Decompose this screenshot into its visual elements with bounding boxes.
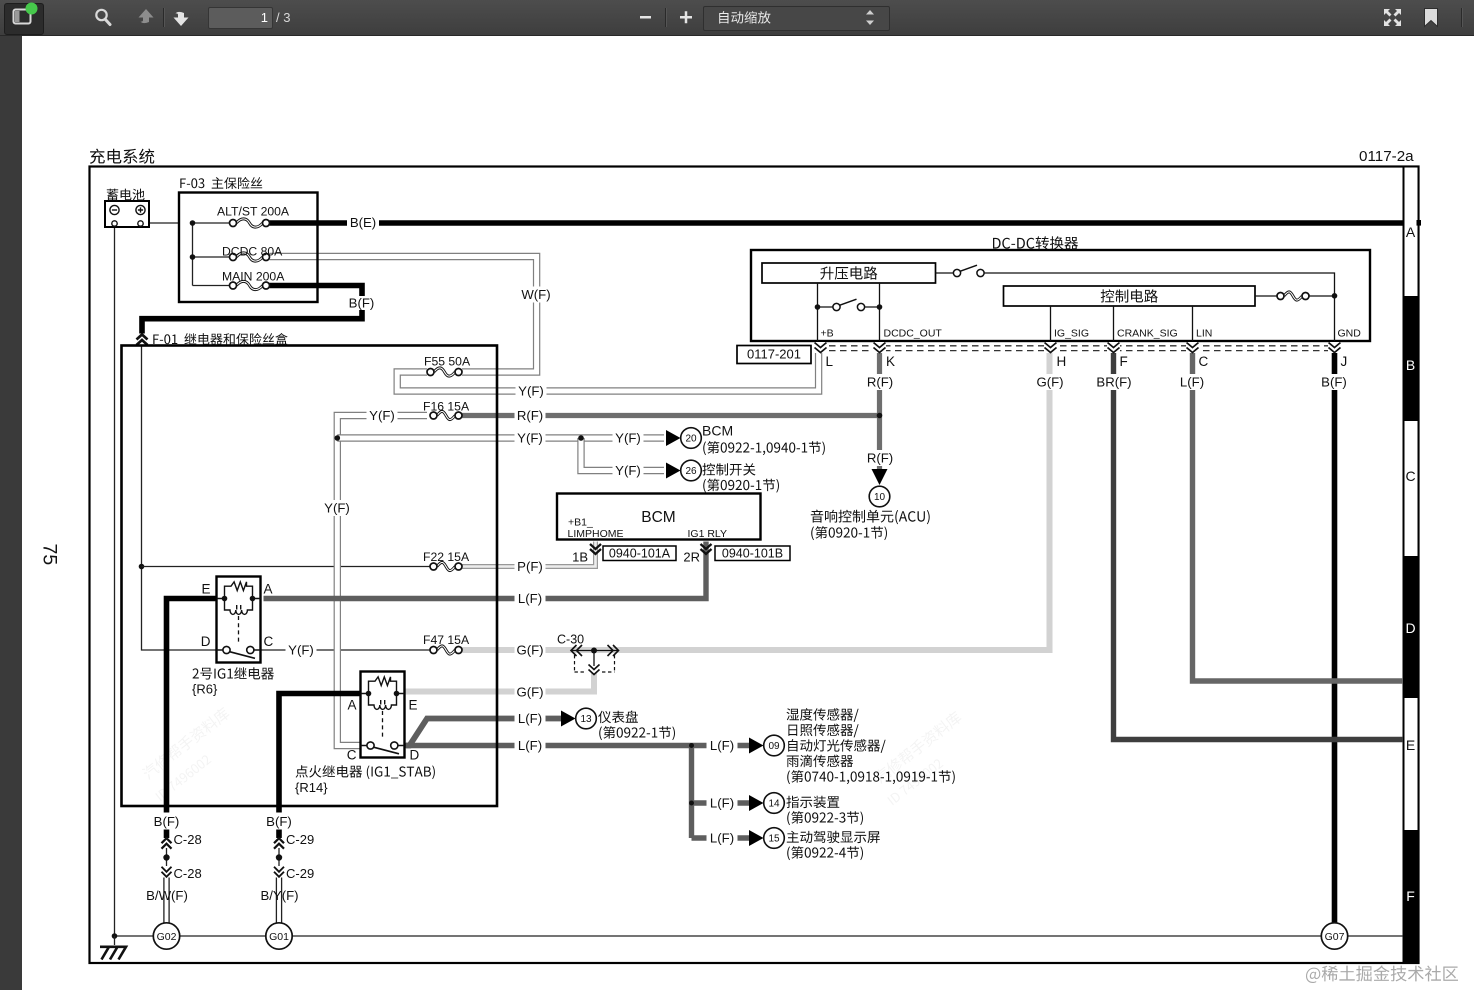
net label B(F) (346, 296, 378, 310)
fuse F22 15A (437, 562, 455, 570)
svg-text:B(E): B(E) (350, 215, 376, 230)
node: R(F) junction (877, 413, 883, 419)
svg-text:B(F): B(F) (1321, 375, 1347, 390)
svg-text:A: A (264, 582, 273, 597)
page outer border (90, 167, 1419, 964)
svg-text:R(F): R(F) (867, 451, 893, 466)
ground G07 (1321, 923, 1347, 949)
connector label 0117-201 (737, 346, 811, 364)
battery label (107, 189, 145, 201)
svg-text:F22 15A: F22 15A (423, 550, 470, 564)
wire B(F): MAIN fuse into F-01 box (142, 286, 362, 334)
arrow 09 to sensors (749, 738, 764, 754)
svg-text:D: D (410, 748, 420, 763)
node: F22 feed junction (139, 564, 145, 570)
svg-text:B(F): B(F) (266, 814, 292, 829)
wire: B(F) bus inside F-01 (142, 346, 217, 651)
svg-text:G02: G02 (157, 931, 177, 943)
svg-text:CRANK_SIG: CRANK_SIG (1117, 328, 1178, 340)
net label G(F) R14E (515, 684, 546, 700)
svg-text:W(F): W(F) (521, 287, 550, 302)
svg-text:C-28: C-28 (174, 866, 202, 881)
net label Y(F) bcm1 (515, 430, 546, 446)
arrow 20 to BCM (666, 430, 681, 446)
svg-text:MAIN 200A: MAIN 200A (222, 270, 285, 284)
svg-text:Y(F): Y(F) (615, 431, 641, 446)
svg-text:F16 15A: F16 15A (423, 400, 470, 414)
svg-text:{R14}: {R14} (295, 780, 328, 795)
svg-text:B: B (1406, 357, 1415, 373)
svg-text:L(F): L(F) (518, 711, 542, 726)
wire R(F): F16 to junction (462, 413, 880, 418)
net label G(F) H (1035, 374, 1066, 390)
wire L(F): relay R14 D to sensors/indicator/display (405, 743, 750, 748)
net label L(F) 09b (707, 738, 738, 754)
arrow 14 to indicator (749, 795, 764, 811)
svg-text:13: 13 (580, 714, 592, 725)
wire B(F): relay R14 A to ground via C-29 (279, 694, 361, 839)
svg-text:75: 75 (39, 544, 61, 566)
svg-text:L(F): L(F) (710, 831, 734, 846)
F-03 label (180, 177, 262, 189)
wire BR(F): DC-DC pin F to edge E (1114, 342, 1404, 740)
relay/fuse box F-01 (122, 346, 498, 807)
svg-text:Y(F): Y(F) (517, 431, 543, 446)
svg-text:G01: G01 (269, 931, 289, 943)
svg-text:DCDC 80A: DCDC 80A (222, 245, 283, 259)
fuse DCDC 80A (236, 253, 262, 261)
svg-text:C-28: C-28 (174, 832, 202, 847)
DC-DC labels (993, 236, 1078, 249)
wire R(F): DC-DC pin K down to ACU (877, 342, 882, 469)
relay R6 name (193, 667, 274, 680)
svg-text:C: C (347, 748, 357, 763)
svg-text:B/W(F): B/W(F) (146, 888, 188, 903)
svg-text:+B: +B (821, 328, 834, 340)
relay R14 name (296, 765, 435, 779)
wire Y(F): F55 hairpin to DC-DC pin L (397, 343, 818, 391)
arrow 10 to ACU (872, 469, 888, 485)
net label Y(F) F55 (516, 383, 547, 399)
svg-text:K: K (886, 354, 895, 369)
svg-text:E: E (201, 582, 210, 597)
arrow 15 to active driving display (749, 830, 764, 846)
node: Y(F) junctions (335, 435, 341, 441)
net label R(F) F16 (515, 408, 546, 424)
net label B(F) J (1319, 374, 1350, 390)
net label Y(F) vertical (322, 500, 353, 516)
svg-text:F55 50A: F55 50A (424, 355, 471, 369)
faint watermark 1 (141, 706, 231, 801)
DC-DC converter box (751, 250, 1370, 341)
svg-text:B/Y(F): B/Y(F) (260, 888, 298, 903)
page number 75 (rotated) (39, 544, 61, 566)
svg-text:0117-201: 0117-201 (747, 347, 801, 362)
svg-text:B(F): B(F) (154, 814, 180, 829)
svg-text:LIMPHOME: LIMPHOME (568, 528, 624, 540)
net label Y(F) bcm2 (613, 430, 644, 446)
wire: ground bus G02-G01-G07 (115, 935, 1404, 937)
svg-text:20: 20 (685, 434, 697, 445)
svg-text:L(F): L(F) (518, 738, 542, 753)
fuse box F-03 (179, 193, 318, 303)
wire B(F): relay R6 E to ground via C-28 (167, 599, 217, 839)
net label L(F) 09a (515, 738, 546, 754)
net label P(F) (515, 559, 546, 575)
svg-text:26: 26 (685, 466, 697, 477)
svg-text:E: E (1406, 737, 1415, 753)
net label L(F) 15 (707, 830, 738, 846)
svg-text:BR(F): BR(F) (1096, 375, 1131, 390)
net label W(F) (519, 287, 553, 303)
svg-text:DCDC_OUT: DCDC_OUT (884, 328, 943, 340)
wire Y(F): vertical feed to F16 and relay R14 C (337, 416, 427, 746)
net label G(F) F47 (515, 642, 546, 658)
svg-text:ALT/ST 200A: ALT/ST 200A (217, 205, 290, 219)
net label Y(F) sw (613, 463, 644, 479)
svg-text:Y(F): Y(F) (324, 501, 350, 516)
ground G02 (153, 923, 179, 949)
svg-text:Y(F): Y(F) (615, 463, 641, 478)
net label B(E) (347, 215, 379, 231)
svg-text:F: F (1406, 888, 1415, 904)
F-01 label (153, 333, 287, 345)
control circuit legs IG_SIG/CRANK_SIG/LIN (1051, 306, 1193, 341)
faint watermark 2 (873, 710, 963, 805)
svg-text:2R: 2R (683, 550, 700, 565)
wire L(F): BCM 2R to relay R6 A (264, 542, 707, 599)
svg-text:0117-2a: 0117-2a (1359, 148, 1414, 165)
fuse ALT/ST 200A (236, 219, 262, 227)
+B / DCDC_OUT legs and switch (818, 283, 880, 341)
net label L(F) 14 (707, 795, 738, 811)
svg-text:G(F): G(F) (1036, 375, 1063, 390)
title 充电系统 (90, 149, 154, 164)
wire G(F): C-30 branch to relay R14 E (405, 673, 595, 692)
svg-text:D: D (1405, 620, 1415, 636)
net label R(F) K (865, 374, 896, 390)
svg-text:IG_SIG: IG_SIG (1054, 328, 1089, 340)
svg-text:L(F): L(F) (518, 591, 542, 606)
svg-text:R(F): R(F) (867, 375, 893, 390)
connector 0117-201 dashed band (818, 346, 1336, 351)
resistor to GND inside DC-DC (1255, 295, 1335, 297)
svg-text:BCM: BCM (641, 509, 675, 526)
svg-text:LIN: LIN (1196, 328, 1212, 340)
svg-text:R(F): R(F) (517, 408, 543, 423)
svg-text:D: D (201, 634, 211, 649)
ground chassis stub (114, 936, 116, 945)
connector C-29 (274, 838, 284, 843)
relay R6 (2号IG1继电器) (217, 577, 261, 663)
svg-text:1B: 1B (572, 550, 588, 565)
fuse F55 50A (434, 368, 455, 376)
wire L(F): DC-DC pin C to edge D (1193, 342, 1404, 681)
chassis ground symbol (100, 947, 126, 960)
switch after boost circuit (936, 273, 1335, 341)
svg-text:G(F): G(F) (516, 643, 543, 658)
connector label 0940-101B (715, 546, 790, 561)
svg-text:09: 09 (768, 741, 780, 752)
fuse F47 15A (437, 646, 455, 654)
wire B(F): DC-DC pin J to ground G07 (1332, 342, 1338, 924)
svg-text:L(F): L(F) (710, 796, 734, 811)
wire: F-03 internal bus (193, 223, 230, 286)
svg-text:F47 15A: F47 15A (423, 633, 470, 647)
wire L(F): relay R14 D to instrument cluster arrow (406, 719, 561, 746)
page-edge connector bar (1404, 167, 1419, 964)
arrow 13 to instrument cluster (561, 711, 576, 727)
svg-text:P(F): P(F) (517, 559, 543, 574)
svg-text:15: 15 (768, 834, 780, 845)
svg-text:C-29: C-29 (286, 866, 314, 881)
wire W(F): DCDC 80A fuse to F55 (270, 257, 537, 373)
svg-text:IG1 RLY: IG1 RLY (688, 528, 728, 540)
wire: battery negative to ground bus (114, 227, 116, 937)
svg-text:10: 10 (874, 492, 886, 503)
fuse F16 15A (437, 411, 455, 419)
net label BR(F) (1095, 374, 1133, 390)
wire B(E): ALT/ST fuse to edge A (270, 220, 1405, 226)
svg-text:C: C (1405, 468, 1415, 484)
node: ground bus junction (112, 933, 118, 939)
connector C-28 (162, 838, 172, 843)
svg-text:G07: G07 (1325, 931, 1345, 943)
relay R14 ignition relay IG1_STAB (361, 672, 405, 758)
svg-text:L(F): L(F) (1180, 375, 1204, 390)
net label L(F) 13 (515, 711, 546, 727)
svg-text:14: 14 (768, 799, 780, 810)
net label Y(F) F16 (367, 408, 398, 424)
ground G01 (266, 923, 292, 949)
svg-text:F: F (1120, 354, 1128, 369)
control circuit box 控制电路 (1004, 286, 1256, 306)
svg-text:C: C (1199, 354, 1209, 369)
svg-text:+B1_: +B1_ (568, 517, 593, 529)
svg-text:A: A (347, 698, 356, 713)
svg-text:Y(F): Y(F) (518, 384, 544, 399)
wire: relay R6 C to fuse F47 (261, 649, 431, 651)
svg-text:E: E (409, 698, 418, 713)
connector into F-01 (137, 335, 148, 340)
net label L(F) C (1177, 374, 1208, 390)
svg-text:Y(F): Y(F) (288, 643, 314, 658)
BCM box (557, 494, 761, 540)
boost circuit box 升压电路 (762, 263, 936, 283)
net label Y(F) R6C (286, 642, 317, 658)
svg-text:C-29: C-29 (286, 832, 314, 847)
svg-text:C-30: C-30 (557, 633, 584, 647)
fuse MAIN 200A (236, 281, 262, 289)
net label R(F) acu (865, 450, 896, 466)
svg-text:L: L (826, 354, 834, 369)
BCM pin connectors 1B / 2R (590, 544, 601, 549)
svg-text:L(F): L(F) (710, 738, 734, 753)
svg-text:GND: GND (1338, 328, 1362, 340)
svg-text:A: A (1406, 224, 1416, 240)
bottom-right watermark (1306, 965, 1458, 983)
svg-text:C: C (264, 634, 274, 649)
svg-text:0940-101A: 0940-101A (609, 547, 671, 561)
svg-text:G(F): G(F) (516, 685, 543, 700)
wire G(F): F47 through C-30 to DC-DC pin H (462, 342, 1050, 650)
svg-text:H: H (1057, 354, 1067, 369)
arrow 26 to control switch (666, 463, 681, 479)
wire Y(F): branch to BCM arrow (337, 434, 664, 441)
svg-text:{R6}: {R6} (192, 682, 218, 697)
wire Y(F): branch to control switch arrow (581, 438, 664, 471)
connector label 0940-101A (603, 546, 676, 561)
svg-text:J: J (1341, 354, 1348, 369)
svg-text:0940-101B: 0940-101B (722, 547, 783, 561)
wire: battery positive to F-03 (144, 222, 179, 224)
svg-text:B(F): B(F) (349, 296, 375, 311)
connector C-30 (571, 650, 619, 652)
wire: feed to fuse F22 (142, 566, 431, 568)
wire P(F): F22 to BCM 1B (462, 542, 596, 567)
svg-text:BCM: BCM (702, 423, 733, 439)
svg-text:Y(F): Y(F) (369, 408, 395, 423)
battery 蓄电池 (105, 201, 149, 227)
net label L(F) 2R (515, 591, 546, 607)
